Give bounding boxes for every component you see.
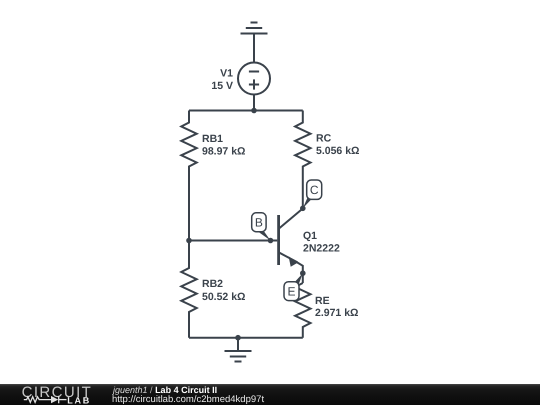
CircuitLab footer bar [0,384,540,405]
label RC 5.056 kΩ [316,133,359,158]
svg-text:15 V: 15 V [211,80,233,92]
wire (RC to collector) [302,175,304,208]
wire (base wire) [189,240,277,242]
label Q1 2N2222 [303,230,340,255]
wire (top rail) [189,110,303,112]
wire (RB1 to base node) [188,175,190,241]
wire (bottom rail) [189,337,303,339]
ground (bottom) [225,338,252,362]
wire (V1 to top rail) [253,95,255,111]
label V1 15 V [211,67,233,91]
svg-text:RB2: RB2 [202,278,223,290]
node B pin dot [268,238,274,244]
svg-text:2N2222: 2N2222 [303,243,340,255]
svg-text:50.52 kΩ: 50.52 kΩ [202,291,245,303]
node C pin dot [300,206,306,212]
svg-text:E: E [287,285,295,299]
transistor Q1 [279,209,303,274]
CircuitLab logo [18,384,98,405]
svg-text:98.97 kΩ: 98.97 kΩ [202,146,245,158]
resistor RC [295,111,310,176]
svg-text:B: B [255,216,263,230]
node (base junction) [186,238,192,244]
label RB1 98.97 kΩ [202,133,245,158]
svg-text:LAB: LAB [67,395,91,405]
label E (emitter flag) [284,273,303,300]
voltage source V1 [238,63,270,95]
svg-text:RC: RC [316,133,332,145]
wire (top ground to V1) [253,34,255,64]
label C (collector flag) [303,180,322,208]
svg-text:RB1: RB1 [202,133,223,145]
resistor RB1 [181,111,196,176]
ground (top, at V1 negative terminal) [241,23,268,34]
svg-text:RE: RE [315,295,330,307]
svg-text:Q1: Q1 [303,230,317,242]
resistor RB2 [181,241,196,338]
svg-text:C: C [310,183,319,197]
label RB2 50.52 kΩ [202,278,245,303]
resistor RE [295,283,310,338]
svg-text:2.971 kΩ: 2.971 kΩ [315,307,358,319]
node (ground junction) [235,335,241,341]
svg-text:V1: V1 [220,67,233,79]
svg-text:5.056 kΩ: 5.056 kΩ [316,145,359,157]
label B (base flag) [252,213,271,241]
node (V1 junction on top rail) [251,108,257,114]
wire (emitter to RE) [302,273,304,283]
node E pin dot [300,270,306,276]
label RE 2.971 kΩ [315,295,358,319]
